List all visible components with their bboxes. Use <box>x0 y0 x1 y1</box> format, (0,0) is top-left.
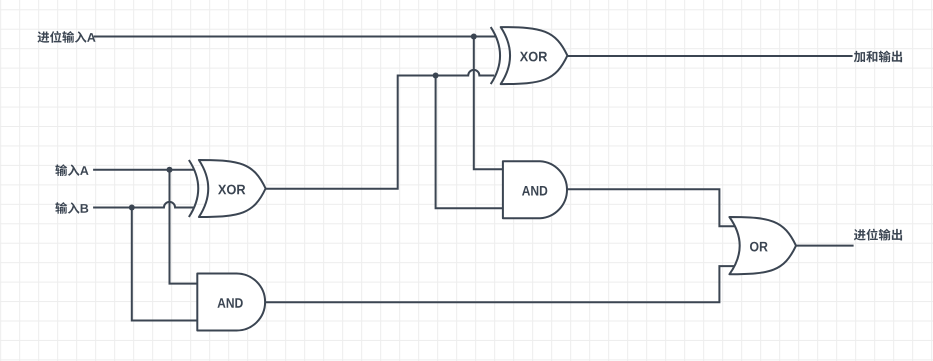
and gate U3 (middle) <box>503 161 567 218</box>
wire: AND U4 output to OR U5 input 2 <box>264 266 734 302</box>
label: input A <box>55 164 88 176</box>
label: input B <box>55 202 88 214</box>
junction: carry-in branch node <box>471 34 477 40</box>
wire: input B net (with hop) <box>93 202 194 208</box>
wire: XOR U2 output to XOR U1 input 2 (with hop) <box>265 70 495 189</box>
wire: carry-in branch to AND U3 input 1 <box>474 37 506 170</box>
wire: OR U5 output to carry output <box>795 245 854 247</box>
wire: XOR U1 output to sum output <box>566 55 853 57</box>
wire: carry input A net <box>94 36 496 38</box>
xor gate U1 (top, sum) <box>491 27 568 84</box>
xor gate U2 (inputs A,B) <box>189 160 266 217</box>
junction: XOR U2 output branch node <box>433 73 439 79</box>
or gate U5 (carry out) <box>729 217 796 274</box>
junction: input A branch node <box>167 167 173 173</box>
wire: AND U3 output to OR U5 input 1 <box>567 189 734 226</box>
wire: input A net <box>93 169 194 171</box>
and gate U4 (bottom) <box>197 274 265 331</box>
junction: input B branch node <box>129 205 135 211</box>
label: sum output <box>854 51 902 63</box>
label: carry input A <box>37 31 95 43</box>
label: carry output <box>854 229 902 241</box>
wire: input B branch to AND U4 input 2 <box>132 208 200 321</box>
wire: input A branch to AND U4 input 1 <box>170 170 201 284</box>
wire: branch to AND U3 input 2 <box>436 76 506 209</box>
